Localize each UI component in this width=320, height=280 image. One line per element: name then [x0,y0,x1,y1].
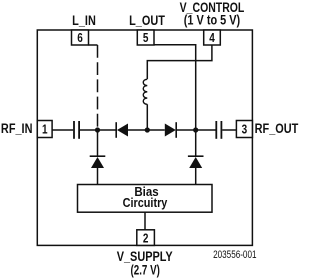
diode D3 shunt (points up) [90,155,106,157]
svg-text:2: 2 [143,232,149,245]
pin 1 box [37,121,52,138]
svg-text:4: 4 [209,32,215,45]
wire C2 to pin 3 [222,129,236,131]
wire D1 to D2 through center node [128,129,165,131]
wire bias box to pin 2 [144,212,146,230]
pin 5 box [137,30,154,45]
svg-text:RF_IN: RF_IN [1,121,33,137]
svg-text:(1 V to 5 V): (1 V to 5 V) [184,12,240,28]
capacitor C2 [215,121,217,139]
wire L_OUT from pin 5 to node B [154,45,196,130]
pin 6 box [72,30,89,45]
node B junction dot [193,127,198,132]
wire node A to shunt diode D3 [97,130,99,156]
svg-text:RF_OUT: RF_OUT [255,121,299,137]
svg-text:L_IN: L_IN [72,13,96,29]
wire V_CONTROL from pin 4 to inductor [147,45,212,79]
wire D2 to capacitor C2 [176,129,215,131]
wire C1 to diode D1 [80,129,117,131]
node center junction dot [145,127,150,132]
wire dashed external inductor path L_IN to node A [97,45,99,130]
svg-text:3: 3 [242,124,248,137]
wire L_IN stub from pin 6 [89,44,98,46]
capacitor C1 [73,121,75,139]
wire inductor to center node [146,104,148,130]
svg-text:5: 5 [143,32,149,45]
svg-text:1: 1 [42,124,48,137]
wire D4 to bias box [195,168,197,185]
node A junction dot [95,127,100,132]
diode D1 series (points left) [115,122,117,138]
wire D3 to bias box [97,168,99,185]
svg-text:(2.7 V): (2.7 V) [131,262,160,278]
svg-text:203556-001: 203556-001 [213,249,256,262]
pin 2 box [137,230,155,246]
diode D2 series (points right) [165,124,176,137]
IC outline box [37,30,252,245]
diode D4 shunt (points up) [188,155,204,157]
pin 3 box [236,121,252,138]
wire RF_IN pin 1 to capacitor C1 [52,129,73,131]
pin 4 box [204,30,221,45]
svg-text:6: 6 [77,32,83,45]
svg-text:L_OUT: L_OUT [129,13,165,29]
wire node B to shunt diode D4 [195,130,197,156]
inductor L1 [143,79,147,104]
svg-text:Circuitry: Circuitry [123,196,168,210]
bias circuitry block [78,185,213,213]
